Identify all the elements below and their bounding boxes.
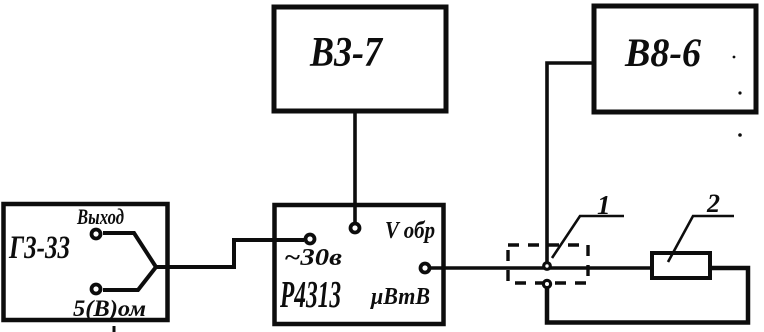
terminal ~30V of R4313 xyxy=(284,235,342,272)
voltmeter block V3-7 xyxy=(274,7,446,111)
wire V3-7 to R4313 top terminal xyxy=(353,111,357,222)
svg-text:Выход: Выход xyxy=(76,204,124,229)
measuring set block R4313 xyxy=(275,205,444,324)
wire return loop: lower terminal, bottom, up to resistor 2 xyxy=(547,268,748,323)
svg-text:В3-7: В3-7 xyxy=(309,30,384,76)
connector 1 dashed box xyxy=(508,245,588,283)
wire from Y node to R4313 input terminal xyxy=(156,240,304,267)
scan speck tick below G3-33 xyxy=(113,326,116,332)
wire V8-6 to node A xyxy=(547,63,594,263)
scan speck xyxy=(738,133,742,137)
svg-text:Г3-33: Г3-33 xyxy=(8,230,70,266)
scan speck xyxy=(738,91,741,94)
node A junction circle xyxy=(544,263,551,270)
terminal V obr of R4313 xyxy=(351,218,436,244)
svg-text:2: 2 xyxy=(706,189,720,218)
svg-text:5(В)ом: 5(В)ом xyxy=(73,296,146,321)
svg-text:μВтВ: μВтВ xyxy=(369,284,430,310)
terminal Vyhod (output) of G3-33 xyxy=(76,204,124,239)
label 2 with leader line xyxy=(668,189,734,262)
resistor 2 xyxy=(652,253,710,278)
terminal 5(V) om of G3-33 xyxy=(73,285,146,322)
terminal uWt V of R4313 xyxy=(369,264,430,311)
label 1 with leader line xyxy=(552,190,624,258)
generator block G3-33 xyxy=(4,204,168,320)
wire R4313 output to resistor 2 xyxy=(431,266,652,270)
svg-text:~30в: ~30в xyxy=(284,245,342,271)
svg-text:В8-6: В8-6 xyxy=(624,30,701,75)
lower terminal of connector 1 xyxy=(543,280,550,287)
svg-text:Р4313: Р4313 xyxy=(279,274,341,316)
scan speck xyxy=(733,56,736,59)
svg-text:V обр: V обр xyxy=(385,218,435,244)
wire from G3-33 terminals joining to Y node xyxy=(103,233,156,290)
meter block V8-6 xyxy=(594,6,756,112)
